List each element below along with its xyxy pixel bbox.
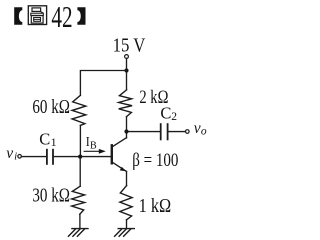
wire vi to C1 — [22, 156, 47, 158]
node top junction — [124, 68, 128, 72]
wire supply lead — [126, 58, 128, 70]
svg-text:30 kΩ: 30 kΩ — [32, 186, 70, 207]
wire emitter down — [126, 171, 128, 185]
ground left — [68, 229, 88, 237]
title bracket right 】 — [77, 7, 85, 24]
title bracket left 【 — [14, 7, 22, 24]
wire base node to 30k — [79, 157, 81, 187]
resistor R3 30k — [72, 186, 85, 214]
svg-text:v: v — [6, 145, 13, 162]
svg-text:42: 42 — [51, 0, 72, 34]
wire 2k to collector — [126, 117, 128, 138]
transistor Q1 — [111, 145, 113, 163]
svg-text:o: o — [201, 126, 207, 138]
capacitor C2 — [160, 124, 162, 139]
wire 60k to base node — [79, 125, 81, 156]
node base junction — [78, 155, 82, 159]
svg-text:i: i — [14, 151, 17, 163]
wire C1 to base — [54, 156, 111, 158]
resistor R2 2k — [126, 71, 128, 90]
svg-text:β = 100: β = 100 — [132, 150, 178, 171]
node vi terminal — [18, 155, 22, 159]
transistor emitter lead — [113, 162, 127, 171]
svg-text:1: 1 — [51, 135, 57, 149]
wire 1k to ground — [126, 220, 128, 229]
svg-text:B: B — [90, 140, 97, 151]
title glyph 圖 — [28, 6, 46, 25]
svg-text:2: 2 — [171, 111, 177, 123]
node collector junction — [124, 129, 128, 133]
svg-text:C: C — [39, 129, 50, 148]
resistor R4 1k — [120, 186, 132, 220]
ground right — [115, 229, 135, 237]
wire 30k to ground — [79, 214, 81, 228]
svg-text:C: C — [160, 103, 171, 122]
wire C2 to vo — [169, 131, 186, 133]
svg-text:1 kΩ: 1 kΩ — [139, 196, 172, 217]
capacitor C1 — [46, 150, 48, 164]
current arrow IB — [84, 150, 100, 152]
svg-text:v: v — [194, 120, 201, 137]
wire collector tap to C2 — [127, 131, 160, 133]
resistor R1 60k — [72, 95, 86, 125]
supply terminal circle — [125, 55, 129, 59]
svg-text:60 kΩ: 60 kΩ — [32, 97, 70, 118]
node vo terminal — [186, 130, 190, 134]
svg-text:15 V: 15 V — [113, 36, 146, 57]
transistor collector lead — [113, 138, 127, 147]
wire top rail — [80, 71, 126, 96]
